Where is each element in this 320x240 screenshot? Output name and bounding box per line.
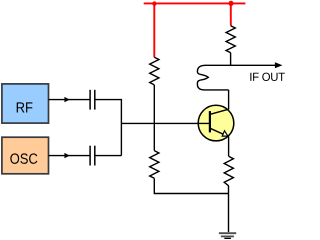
node junction dot left on VCC rail (152, 1, 156, 5)
node junction dot right on VCC rail (228, 1, 233, 6)
wire R4 through bottom rail junction to ground (228, 186, 230, 232)
wire VCC rail (red) (144, 2, 246, 4)
transistor Q1 emitter arrowhead (222, 131, 228, 136)
transistor Q1 base bar (209, 111, 211, 132)
wire from R1 down through base node to R2 (153, 85, 155, 151)
wire base line to Q1 (121, 122, 209, 124)
inductor L1 (IF transformer coil) (197, 65, 228, 90)
wire C2 to base node corner (95, 155, 122, 157)
wire OSC output (49, 155, 90, 157)
wire RF output (49, 99, 90, 101)
box RF source (2, 84, 49, 123)
resistor R1 (upper left bias) (150, 57, 159, 85)
transistor Q1 body (198, 105, 234, 141)
resistor R3 (collector load) (226, 26, 235, 53)
label IF OUT (250, 73, 284, 81)
wire emitter down to R4 (228, 137, 230, 157)
resistor R4 (emitter) (224, 156, 233, 186)
capacitor C2 (OSC coupling) (90, 146, 95, 166)
wire from R2 to bottom rail (154, 178, 228, 193)
resistor R2 (lower left bias) (150, 151, 159, 179)
wire red vertical from VCC to R3 (230, 3, 232, 25)
ground symbol (219, 233, 236, 239)
wire C1 to base node corner (95, 100, 122, 156)
label OSC (10, 153, 37, 163)
box OSC source (2, 137, 49, 174)
arrowhead IF OUT (275, 62, 283, 68)
arrowhead OSC flow (64, 153, 69, 158)
arrowhead RF flow (64, 97, 69, 102)
wire coil to collector (228, 90, 230, 110)
label RF (17, 102, 33, 112)
capacitor C1 (RF coupling) (90, 90, 95, 110)
wire red vertical from VCC to R1 (153, 3, 155, 57)
transistor Q1 collector diagonal (210, 109, 228, 114)
transistor Q1 emitter diagonal (210, 128, 229, 136)
wire from R3 to IF line junction (230, 53, 232, 66)
wire IF OUT line (205, 64, 277, 66)
